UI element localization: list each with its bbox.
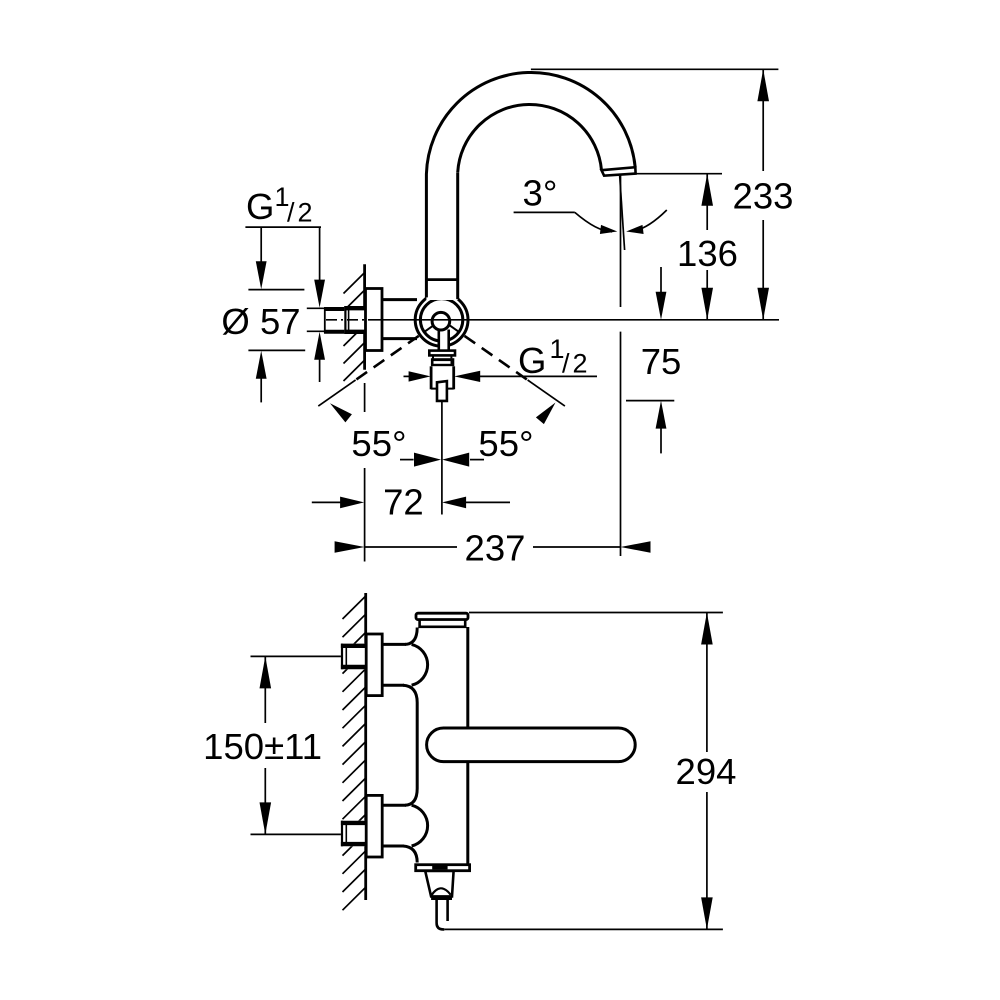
outlet tube G 1/2 (431, 366, 454, 389)
dimension 72 outside arrows (312, 501, 341, 503)
label G 1/2 right (518, 334, 588, 381)
G 1/2 label underline (245, 226, 321, 228)
svg-text:Ø 57: Ø 57 (221, 301, 300, 342)
G 1/2 up arrow inner (314, 332, 325, 360)
body top cap collar (420, 620, 466, 627)
G 1/2 right leader line with arrows at outlet (404, 375, 410, 377)
svg-text:55°: 55° (351, 423, 406, 464)
spout mouth end band with 3 degree cut face (602, 167, 636, 176)
main horizontal centerline (326, 319, 779, 321)
svg-text:150±11: 150±11 (203, 726, 322, 767)
wall line (top view) (363, 264, 366, 370)
wall flange escutcheon (top view) (366, 289, 383, 351)
valve small center circle (432, 312, 450, 330)
svg-text:G: G (518, 340, 546, 381)
dimension 294 line with arrows (706, 613, 708, 930)
dimension 75 upper arrow (660, 267, 662, 292)
lower union centerline and 150 tick (251, 833, 366, 835)
75 lower tick line (626, 400, 674, 402)
outlet taper piece (425, 871, 453, 897)
aerator dark bands (431, 358, 454, 366)
valve body outer circle (415, 293, 468, 346)
diameter 57 up arrow outer (256, 351, 267, 379)
vertical outlet centerline below valve (441, 401, 443, 515)
dimension 136 line with arrows (706, 174, 708, 320)
G 1/2 left dropper with arrow (260, 227, 262, 263)
outlet dark ring band (431, 896, 452, 900)
bottom cap dark seam (432, 866, 447, 869)
wall hatching (top view) (344, 272, 366, 381)
outlet upper gap ring (433, 355, 451, 358)
55 degree vertex arrows on outlet centerline (400, 459, 414, 461)
dimension 237 line with arrows (335, 541, 365, 553)
wall line (side view) (364, 593, 367, 900)
upper escutcheon flange (side view) (366, 634, 382, 696)
extension line at drop end (444, 928, 723, 930)
wall extension line segments below wall (364, 383, 366, 562)
svg-text:/: / (562, 349, 570, 379)
svg-text:75: 75 (641, 341, 682, 382)
temperature lever handle (427, 728, 636, 762)
lower escutcheon flange (side view) (366, 795, 382, 857)
outlet stem edges (439, 330, 449, 352)
svg-text:55°: 55° (478, 423, 533, 464)
gooseneck spout riser tube (426, 173, 457, 300)
swivel range lines inside valve at 55 degrees (424, 325, 458, 332)
label G 1/2 top left (246, 182, 313, 228)
vertical extension line from spout mouth (620, 176, 622, 557)
extension line at body top (469, 612, 723, 614)
svg-text:2: 2 (298, 198, 313, 228)
diameter 57 dimension ticks (248, 290, 341, 351)
water drop tube (437, 900, 448, 929)
left 55 degree angle leader line (318, 380, 355, 406)
upper union centerline and 150 tick (251, 655, 366, 657)
spout outer arc (426, 72, 635, 174)
inner outlet tube (437, 381, 447, 401)
right 55 degree angle leader line (528, 380, 565, 406)
hex nut at wall (top view) (344, 306, 365, 334)
right 55 degree arrowhead (536, 403, 556, 425)
wall hatching (side view) (343, 596, 366, 910)
svg-text:294: 294 (676, 751, 737, 792)
left 55 degree arrowhead (330, 403, 352, 422)
faucet body cylinder (417, 620, 468, 866)
upper hex nut (side view) (341, 644, 365, 670)
left swivel dashed line at 55 degrees (356, 336, 419, 380)
svg-text:G: G (246, 186, 274, 227)
dimension 75 lower arrow (656, 401, 667, 429)
3 degree left arc with arrowhead (575, 212, 612, 231)
water stream line tilted 3 degrees (620, 176, 625, 250)
svg-text:72: 72 (383, 482, 424, 523)
dimension 233 line with arrows (762, 69, 764, 319)
svg-text:237: 237 (465, 528, 526, 569)
valve body middle ring (420, 299, 462, 341)
svg-text:136: 136 (677, 233, 738, 274)
spout inner arc (458, 104, 602, 172)
3 degree leader line (514, 211, 575, 213)
body bottom cap (416, 865, 470, 871)
svg-text:3°: 3° (523, 173, 558, 214)
extension line at spout top (531, 68, 779, 70)
svg-text:/: / (287, 198, 295, 228)
3 degree right arc with arrowhead (632, 210, 667, 231)
svg-text:2: 2 (573, 349, 588, 379)
body top cap disc (416, 613, 468, 619)
dimension 150 plus minus 11 line with arrows (260, 656, 272, 688)
right swivel dashed line at 55 degrees (465, 336, 528, 380)
connection pipe flange to valve body (381, 300, 417, 339)
outlet stem below valve (439, 328, 449, 351)
lower union arm (382, 789, 428, 863)
outlet collar (429, 351, 455, 356)
G 1/2 threaded pipe stub behind wall (324, 308, 347, 333)
extension line at spout mouth level (636, 173, 722, 175)
150 tick lines extensions (251, 655, 341, 657)
aerator dome inside taper (431, 888, 450, 895)
svg-text:233: 233 (733, 176, 794, 217)
lower hex nut (side view) (341, 821, 365, 847)
G 1/2 right dropper with arrow (319, 227, 321, 281)
upper union arm (382, 628, 428, 703)
